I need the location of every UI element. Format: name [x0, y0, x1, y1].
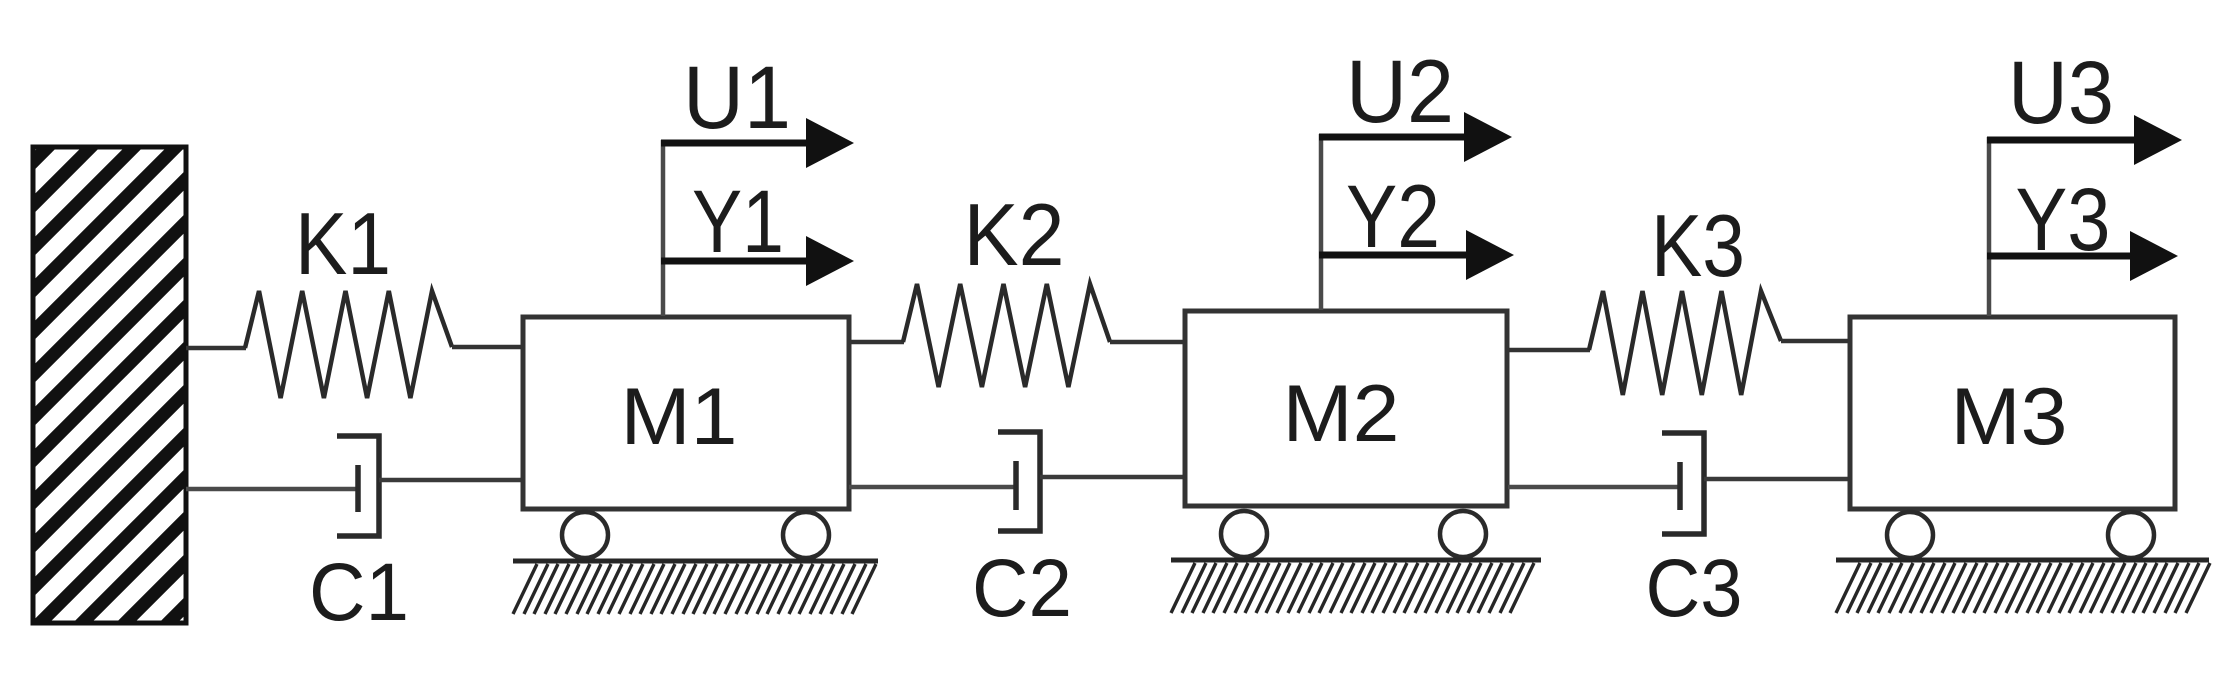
- mass M2: [1185, 311, 1507, 506]
- svg-text:K2: K2: [964, 185, 1065, 284]
- svg-text:M3: M3: [1951, 372, 2068, 462]
- signal arrow Y3: [1987, 231, 2178, 281]
- svg-text:C2: C2: [972, 543, 1072, 634]
- wire mass M1 to spring K2: [849, 340, 904, 345]
- wheels of M1: [562, 512, 829, 558]
- svg-text:U1: U1: [683, 47, 791, 147]
- spring K3: [1589, 291, 1781, 395]
- spring K1: [245, 291, 452, 398]
- stem wire for U2/Y2 on M2: [1319, 134, 1324, 310]
- svg-text:M2: M2: [1283, 369, 1400, 459]
- ground under M3: [1836, 560, 2210, 613]
- damper C1: [337, 436, 379, 536]
- spring K2: [903, 284, 1110, 387]
- ground under M2: [1171, 560, 1541, 613]
- wire mass M1 to damper C2 rod: [849, 485, 1018, 490]
- svg-text:Y3: Y3: [2016, 169, 2111, 269]
- svg-text:C1: C1: [309, 547, 409, 638]
- stem wire for U3/Y3 on M3: [1987, 137, 1992, 316]
- damper C2: [998, 432, 1040, 531]
- wire damper C2 to mass M2: [1040, 475, 1185, 480]
- wire mass M2 to damper C3 rod: [1508, 485, 1682, 490]
- wire spring K3 to mass M3: [1781, 339, 1850, 344]
- wire damper C1 to mass M1: [379, 478, 523, 483]
- mass M3: [1850, 317, 2175, 509]
- svg-text:M1: M1: [621, 372, 738, 462]
- signal arrow Y2: [1319, 230, 1514, 280]
- svg-text:Y1: Y1: [692, 171, 784, 271]
- svg-text:K3: K3: [1651, 196, 1745, 295]
- stem wire for U1/Y1 on M1: [661, 140, 666, 316]
- svg-text:Y2: Y2: [1346, 166, 1440, 266]
- wheels of M2: [1221, 511, 1486, 557]
- signal arrow U2: [1319, 112, 1512, 162]
- wheels of M3: [1887, 512, 2154, 558]
- signal arrow Y1: [661, 236, 854, 286]
- svg-text:U3: U3: [2008, 42, 2114, 142]
- signal arrow U1: [661, 118, 854, 168]
- wire mass M2 to spring K3: [1508, 348, 1590, 353]
- damper C3: [1662, 433, 1704, 534]
- wall (fixed support, hatched): [0, 93, 782, 653]
- wire damper C3 to mass M3: [1704, 477, 1850, 482]
- signal arrow U3: [1987, 115, 2182, 165]
- wire spring K2 to mass M2: [1110, 340, 1185, 345]
- ground under M1: [513, 561, 878, 614]
- wire spring K1 to mass M1: [452, 345, 523, 350]
- wire wall to spring K1: [186, 346, 246, 351]
- mass M1: [523, 317, 849, 509]
- svg-text:C3: C3: [1646, 543, 1743, 634]
- wire wall to damper C1 rod: [186, 487, 359, 492]
- svg-text:K1: K1: [295, 194, 391, 293]
- svg-text:U2: U2: [1346, 41, 1454, 141]
